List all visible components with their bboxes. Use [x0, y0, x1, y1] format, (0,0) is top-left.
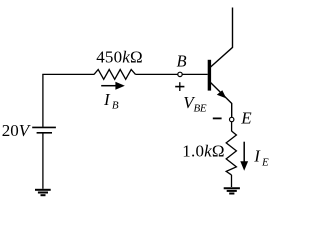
svg-text:B: B	[177, 51, 187, 70]
wire: battery negative plate down to left ground	[42, 133, 44, 189]
transistor Q1 collector lead (diagonal then vertical up)	[210, 8, 233, 68]
svg-text:BE: BE	[194, 103, 207, 115]
ground (right, below R2)	[224, 188, 240, 193]
wire: resistor R2 to right ground	[231, 175, 233, 187]
plus sign of VBE	[175, 82, 184, 91]
svg-text:I: I	[103, 90, 111, 109]
resistor R1 450k zigzag	[94, 70, 136, 80]
wire: top horizontal from corner to resistor R1	[42, 73, 94, 75]
battery V1 positive plate (long)	[32, 126, 56, 128]
current arrow IE pointing down	[240, 142, 248, 171]
label: node B	[177, 51, 187, 70]
wire: node E to resistor R2	[231, 122, 233, 132]
svg-text:I: I	[253, 147, 261, 166]
wire: node B to transistor base bar	[182, 73, 208, 75]
label: 1.0kOhm value of R2	[182, 142, 224, 161]
label: VBE voltage	[183, 93, 207, 115]
svg-text:20V: 20V	[2, 121, 32, 140]
transistor Q1 base bar	[208, 60, 211, 91]
label: 20V source value	[2, 121, 32, 140]
wire: top-left vertical from corner down to battery positive plate	[42, 74, 44, 126]
label: IB current	[103, 90, 119, 112]
svg-text:1.0kΩ: 1.0kΩ	[182, 142, 224, 161]
battery V1 negative plate (short)	[37, 132, 52, 134]
node E terminal circle	[230, 117, 234, 121]
label: IE current	[253, 147, 269, 169]
current arrow IB pointing right	[101, 82, 125, 90]
label: 450kOhm value of R1	[96, 48, 143, 67]
svg-text:B: B	[112, 100, 119, 112]
wire: resistor R1 to node B	[136, 73, 178, 75]
minus sign of VBE	[213, 117, 222, 119]
svg-text:E: E	[261, 157, 269, 169]
transistor Q1 emitter lead (diagonal then vertical down to node E)	[210, 82, 232, 117]
node B terminal circle	[178, 72, 182, 76]
resistor R2 1.0k zigzag (vertical)	[226, 131, 236, 175]
svg-text:450kΩ: 450kΩ	[96, 48, 143, 67]
transistor Q1 emitter arrowhead	[217, 90, 227, 98]
ground (left, below battery)	[35, 190, 51, 195]
svg-text:E: E	[240, 108, 252, 127]
label: node E	[240, 108, 252, 127]
